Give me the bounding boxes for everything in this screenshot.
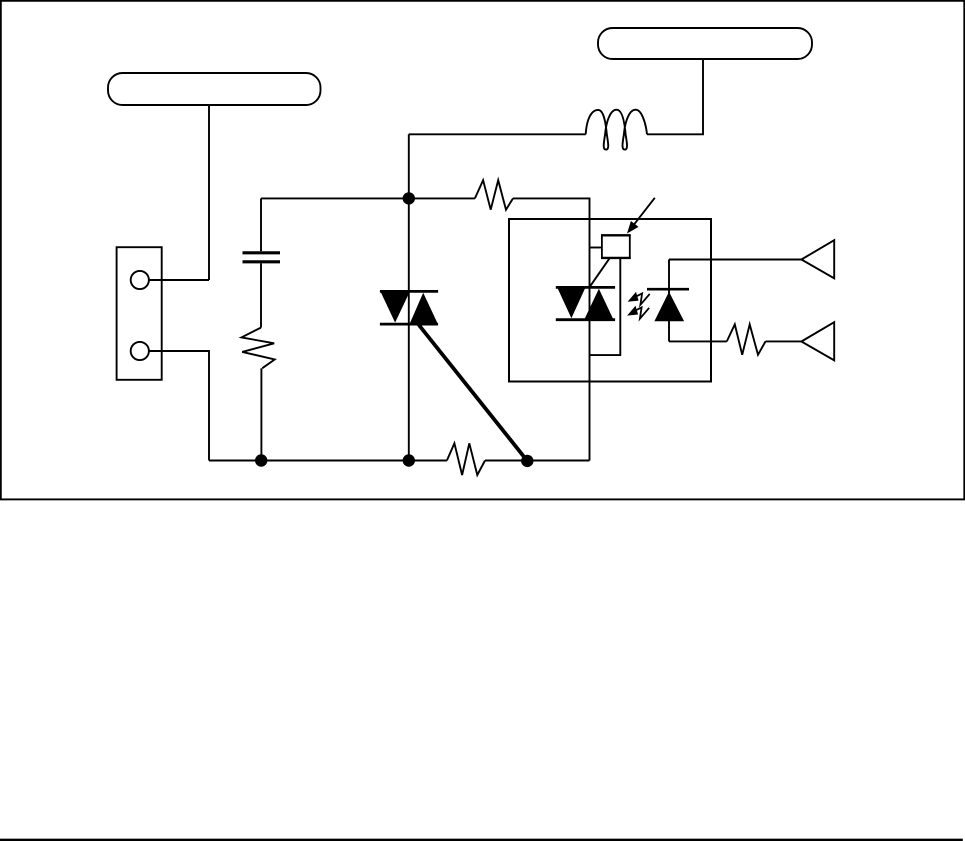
wire from label box TL [208,105,210,280]
terminal T1 triangle [801,240,834,278]
wire pin1 to stem [149,279,209,281]
wire capacitor branch upper [260,198,262,251]
connector J1 body [117,247,162,380]
footer rule [0,839,963,841]
capacitor C1 plate bottom [243,260,281,263]
label box TR (rounded) [598,28,812,59]
node A junction dot [403,192,415,204]
capacitor C1 plate top [243,251,281,254]
node D junction dot (gate) [521,455,533,467]
terminal T2 triangle [801,322,834,360]
photo detector cell top/bottom thick edges [601,235,631,258]
wire inductor to node A [409,133,586,135]
LED D1 cathode bar [647,288,689,291]
opto triac left triangle [558,288,586,318]
opto gate diagonal [589,258,610,288]
wire stub to detector [590,247,602,249]
opto coupler U1 box [509,219,711,382]
pointer arrow to detector [627,198,655,234]
node B junction dot [255,454,267,466]
wire pin2 down to bottom rail [149,351,209,461]
wire resistor R2 to bottom rail [260,368,262,460]
wire LED cathode to resistor R4 [669,340,801,342]
resistor R3 (bottom) [447,443,485,475]
resistor R2 (vertical) [242,328,275,369]
triac Q1 top bar [380,290,438,293]
inductor L1 [586,110,647,150]
light arrow 1 [628,292,650,305]
connector J1 pin 1 circle [131,271,149,289]
label box TL (rounded) [108,73,321,105]
opto triac right triangle [585,289,614,319]
connector J1 pin 2 circle [131,342,149,360]
wire detector to opto output [590,258,621,355]
wire main vertical through triac [408,134,410,460]
bottom rail wire [209,460,590,462]
LED D1 triangle [654,292,684,322]
resistor R4 (right) [727,324,766,354]
wire capacitor to resistor R2 [260,263,262,327]
schematic frame [1,1,965,500]
LED D1 vertical wire [668,259,670,341]
triac Q1 gate wire (thick diagonal) [419,325,528,461]
wire from label box TR [647,59,703,134]
node C junction dot [403,454,415,466]
wire top branch rail [261,198,590,460]
triac Q1 left triangle [381,292,410,322]
wire LED anode to terminal T1 [669,259,801,261]
resistor R1 (top) [475,180,513,210]
opto triac bottom bar [556,318,615,321]
triac Q1 bottom bar [380,323,438,326]
triac Q1 right triangle [410,293,438,324]
photo detector cell [602,235,630,258]
opto triac top bar [556,286,615,289]
light arrow 2 [627,306,649,319]
